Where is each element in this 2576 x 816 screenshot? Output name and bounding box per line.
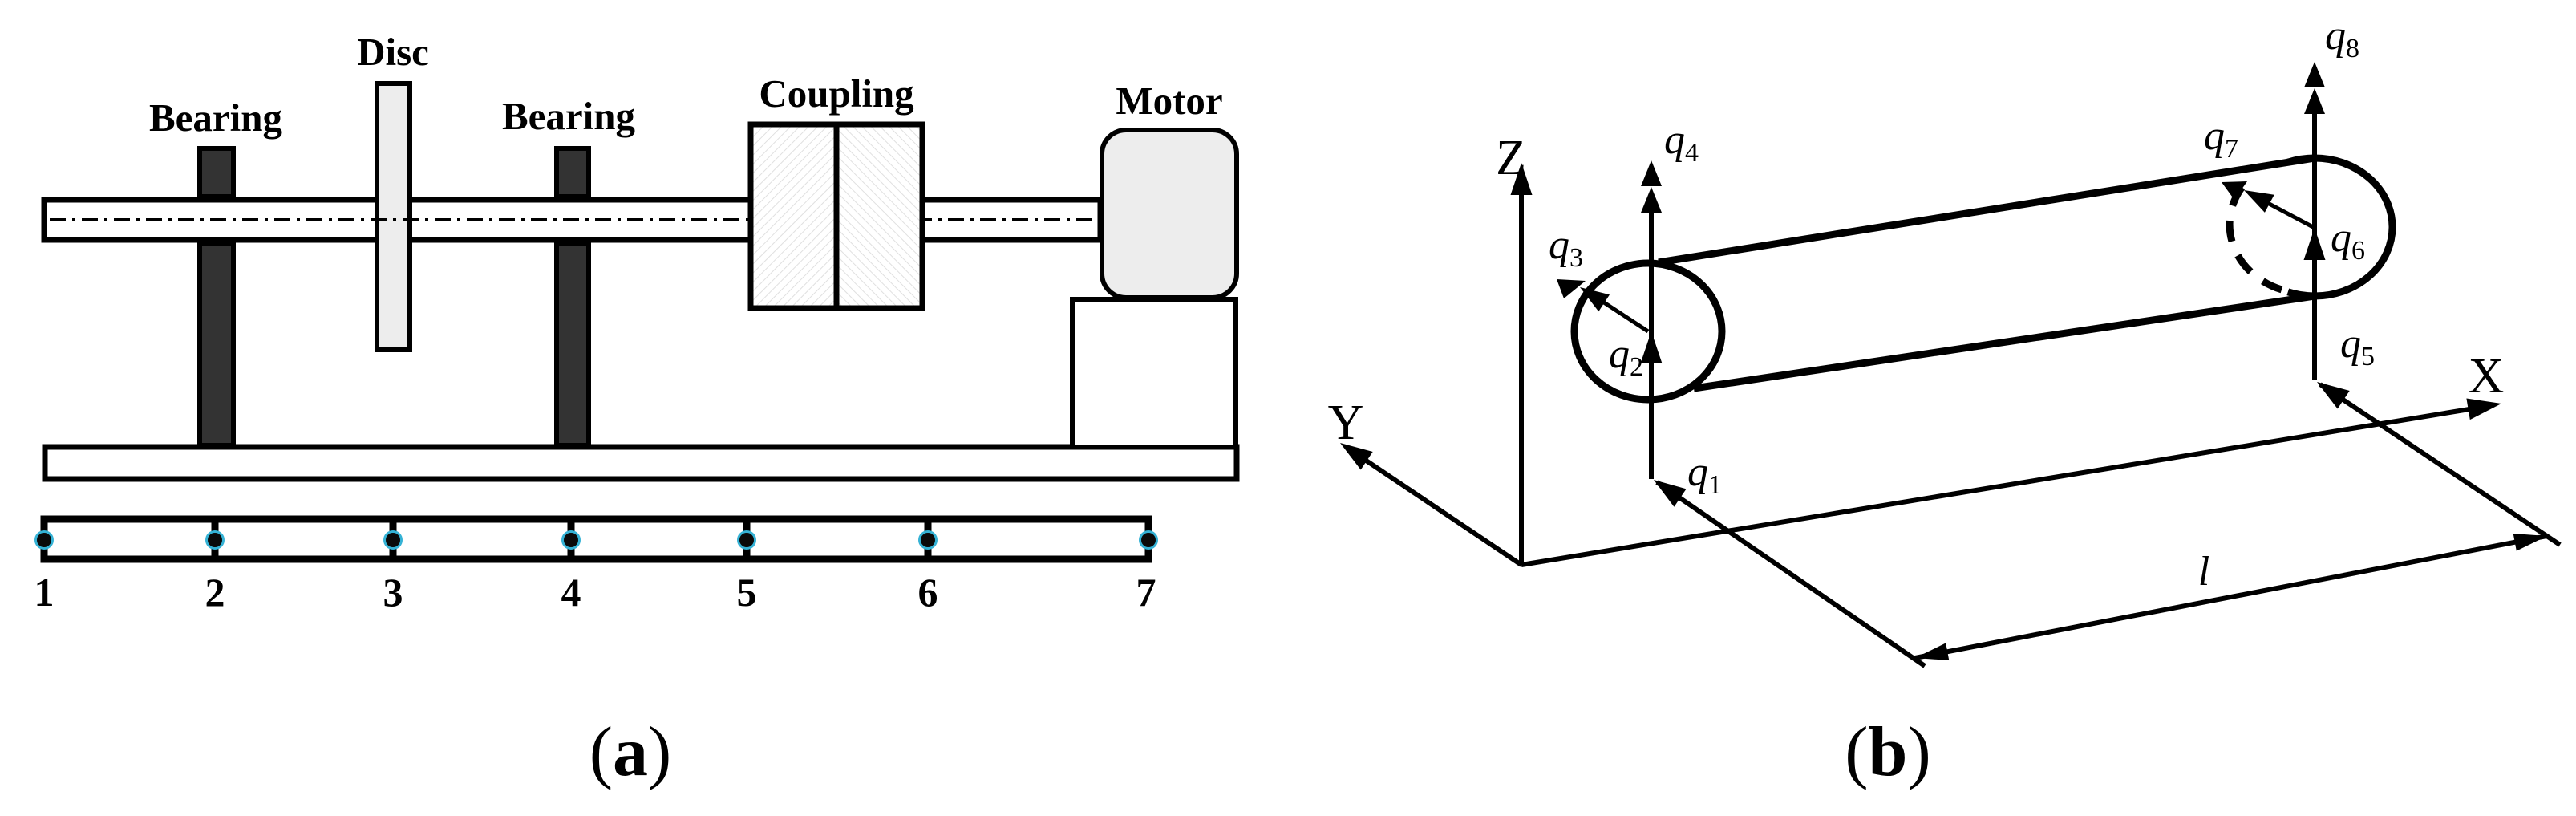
svg-text:Motor: Motor [1116,79,1222,123]
q7 arrowhead on radius [2244,190,2274,213]
shaft centerline [50,218,1097,221]
q2 arrowhead [1641,331,1663,363]
bearing 1 upper block [200,148,233,197]
coupling left half [751,124,836,308]
bearing 2 pedestal [557,243,589,445]
right end ellipse solid half [2288,158,2392,296]
svg-text:Coupling: Coupling [759,71,914,116]
svg-text:q4: q4 [1664,117,1699,168]
node 4 dot [563,532,580,549]
svg-text:7: 7 [1136,570,1156,615]
q3 radius line [1586,290,1648,331]
coupling right half [836,124,922,308]
node 1 vertical axis (q2/q4 line) [1649,193,1654,479]
l dimension left arrowhead [1915,643,1949,660]
svg-text:q2: q2 [1609,331,1643,382]
FE beam outline [44,519,1148,559]
svg-text:q1: q1 [1687,449,1722,500]
cylinder bottom edge [1694,296,2315,388]
node 6 dot [920,532,937,549]
Z axis arrowhead [1511,163,1533,195]
node 7 dot [1140,532,1157,549]
node 3 dot [385,532,402,549]
X axis [1521,408,2474,565]
q5 arrowhead [2317,382,2350,409]
Y axis arrowhead [1340,443,1373,470]
q4 arrowhead upper [1641,160,1662,186]
svg-text:5: 5 [737,570,757,615]
node 2 vertical axis (q6/q8 line) [2312,96,2317,380]
cylinder top edge [1659,158,2315,262]
l dimension line [1915,536,2547,658]
disc [377,83,410,350]
svg-text:q5: q5 [2340,321,2375,371]
node 3 tick [390,519,397,559]
svg-text:(a): (a) [589,713,672,791]
Y axis [1355,453,1521,565]
motor stand [1072,299,1236,447]
motor [1102,130,1237,298]
q4 arrowhead lower [1641,187,1662,213]
q6 arrowhead [2304,228,2326,260]
svg-text:q6: q6 [2331,215,2365,266]
q3 tangential arrowhead [1557,279,1586,298]
svg-text:Disc: Disc [357,30,429,74]
base plate [45,447,1237,479]
node 5 dot [739,532,755,549]
q1 arrowhead [1654,480,1687,507]
svg-text:q3: q3 [1549,222,1583,273]
svg-text:l: l [2198,549,2209,595]
q8 arrowhead lower [2304,88,2325,114]
node 2 tick [212,519,219,559]
node 5 tick [743,519,751,559]
svg-text:6: 6 [918,570,938,615]
l dimension right arrowhead [2513,534,2547,551]
shaft [44,200,1100,240]
bearing 2 upper block [557,148,589,197]
q7 tangential arrowhead [2222,181,2247,200]
node 4 tick [568,519,575,559]
node 1 dot [36,532,53,549]
node 6 tick [925,519,932,559]
svg-text:Bearing: Bearing [149,95,283,140]
svg-text:Z: Z [1496,131,1526,185]
svg-text:Y: Y [1328,396,1364,450]
q8 arrowhead upper [2304,62,2325,87]
left end ellipse [1574,263,1722,400]
bearing 1 pedestal [200,243,233,445]
svg-text:4: 4 [561,570,581,615]
node 2 dot [207,532,224,549]
svg-text:q8: q8 [2325,13,2359,63]
svg-text:Bearing: Bearing [502,94,636,138]
svg-text:2: 2 [205,570,225,615]
svg-text:3: 3 [383,570,403,615]
svg-text:(b): (b) [1845,713,1931,791]
svg-text:q7: q7 [2204,113,2238,164]
Z axis [1519,193,1524,565]
q5 line [2320,384,2560,545]
right end ellipse hidden half (dashed) [2230,185,2282,290]
q1 line [1657,482,1925,666]
X axis arrowhead [2466,399,2501,420]
q3 arrowhead on radius [1580,287,1610,311]
svg-text:X: X [2469,349,2505,404]
svg-text:1: 1 [34,570,55,615]
q7 radius line [2250,193,2315,228]
